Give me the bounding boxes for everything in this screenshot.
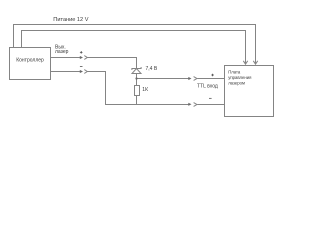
- svg-text:1К: 1К: [142, 87, 148, 93]
- svg-text:Плата: Плата: [228, 70, 241, 75]
- svg-text:Питание 12 V: Питание 12 V: [53, 17, 88, 23]
- svg-text:Контроллер: Контроллер: [16, 58, 44, 64]
- svg-text:7,4 В: 7,4 В: [146, 66, 158, 72]
- svg-text:лазер: лазер: [55, 49, 69, 55]
- svg-text:TTL вход: TTL вход: [197, 84, 218, 90]
- svg-text:управления: управления: [228, 75, 251, 80]
- svg-text:лазером: лазером: [228, 81, 245, 86]
